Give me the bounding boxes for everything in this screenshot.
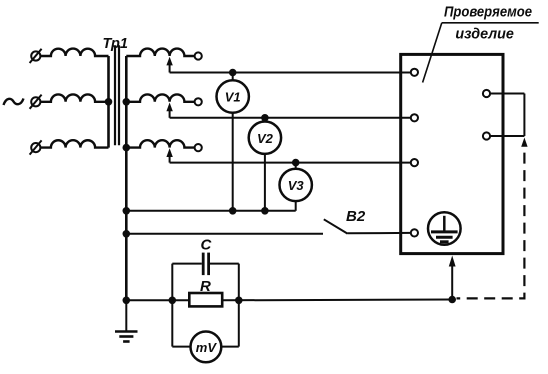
ground symbol — [115, 300, 138, 341]
primary winding row2 — [40, 94, 108, 101]
junction row2 V2 — [261, 114, 269, 122]
bus1 wire voltmeter common — [126, 210, 295, 212]
box terminal row3 — [411, 159, 418, 166]
secondary winding row1 — [126, 49, 194, 56]
tap arrow row2 — [166, 103, 172, 118]
transformer core Tp1 — [115, 45, 119, 145]
junction RC right — [235, 297, 243, 305]
leader line — [423, 23, 442, 83]
junction bus1 V2 — [261, 207, 269, 215]
svg-text:В2: В2 — [346, 208, 366, 225]
svg-text:изделие: изделие — [455, 26, 514, 43]
voltmeter V2 — [249, 118, 281, 211]
svg-text:V1: V1 — [225, 90, 241, 105]
svg-text:C: C — [201, 237, 213, 254]
primary bus wire — [107, 56, 110, 148]
main bottom wire right — [222, 299, 452, 302]
device under test box — [401, 54, 503, 253]
box right terminal upper — [483, 90, 490, 97]
junction row3 V3 — [292, 159, 300, 167]
protective earth symbol — [428, 212, 461, 245]
primary winding row3 — [40, 140, 108, 147]
arrow into box bottom — [449, 256, 456, 300]
wire right terminal upper — [490, 93, 524, 95]
millivoltmeter mV branch wires — [172, 300, 239, 346]
wire right terminal lower — [490, 135, 524, 137]
capacitor C plates — [203, 253, 208, 276]
wire row2 to box — [170, 117, 411, 119]
junction bus1 V1 — [229, 207, 237, 215]
leader shelf line — [442, 22, 539, 24]
box terminal row1 — [411, 69, 418, 76]
box terminal switch — [411, 229, 418, 236]
tap arrow row1 — [166, 57, 172, 73]
svg-text:R: R — [200, 278, 211, 295]
wire row1 to box — [170, 72, 411, 74]
svg-text:Проверяемое: Проверяемое — [444, 4, 532, 21]
millivoltmeter mV — [191, 332, 222, 363]
terminal primary phase B — [30, 95, 42, 109]
junction primary bus row2 — [105, 98, 113, 106]
junction main wire right — [448, 296, 456, 304]
secondary terminal row1 — [195, 52, 202, 59]
label Proverjaemoe izdelie — [444, 4, 532, 43]
voltmeter V3 — [280, 163, 312, 211]
secondary winding row2 — [126, 94, 194, 101]
bus2 wire to switch — [126, 233, 323, 235]
tap arrow row3 — [166, 148, 172, 162]
resistor R — [189, 293, 222, 306]
svg-text:Тр1: Тр1 — [103, 36, 128, 52]
junction secondary bus row2 — [123, 98, 131, 106]
voltmeter V1 — [217, 73, 249, 211]
junction main wire bus — [123, 297, 131, 305]
box right terminal lower — [483, 132, 490, 139]
main bottom wire left — [126, 299, 189, 301]
secondary terminal row3 — [195, 144, 202, 151]
wire jumper right — [523, 94, 525, 137]
svg-text:V2: V2 — [257, 131, 274, 146]
primary winding row1 — [40, 49, 108, 56]
terminal primary phase C — [30, 140, 42, 154]
capacitor C branch wires — [172, 264, 239, 301]
junction secondary bus row3 — [123, 144, 131, 152]
junction bus2 left — [123, 230, 131, 238]
secondary winding row3 — [126, 140, 194, 147]
box terminal row2 — [411, 114, 418, 121]
svg-text:mV: mV — [196, 340, 218, 355]
junction RC left — [169, 297, 177, 305]
terminal primary phase A — [30, 49, 42, 63]
junction row1 V1 — [229, 69, 237, 77]
wire row3 to box — [170, 162, 411, 164]
dashed feedback wire vertical with arrow — [457, 138, 528, 299]
svg-text:V3: V3 — [288, 178, 305, 193]
switch B2 — [324, 219, 411, 233]
ac source symbol ~ — [4, 99, 24, 106]
junction bus1 left — [123, 207, 131, 215]
secondary bus wire — [125, 56, 128, 300]
secondary terminal row2 — [195, 98, 202, 105]
